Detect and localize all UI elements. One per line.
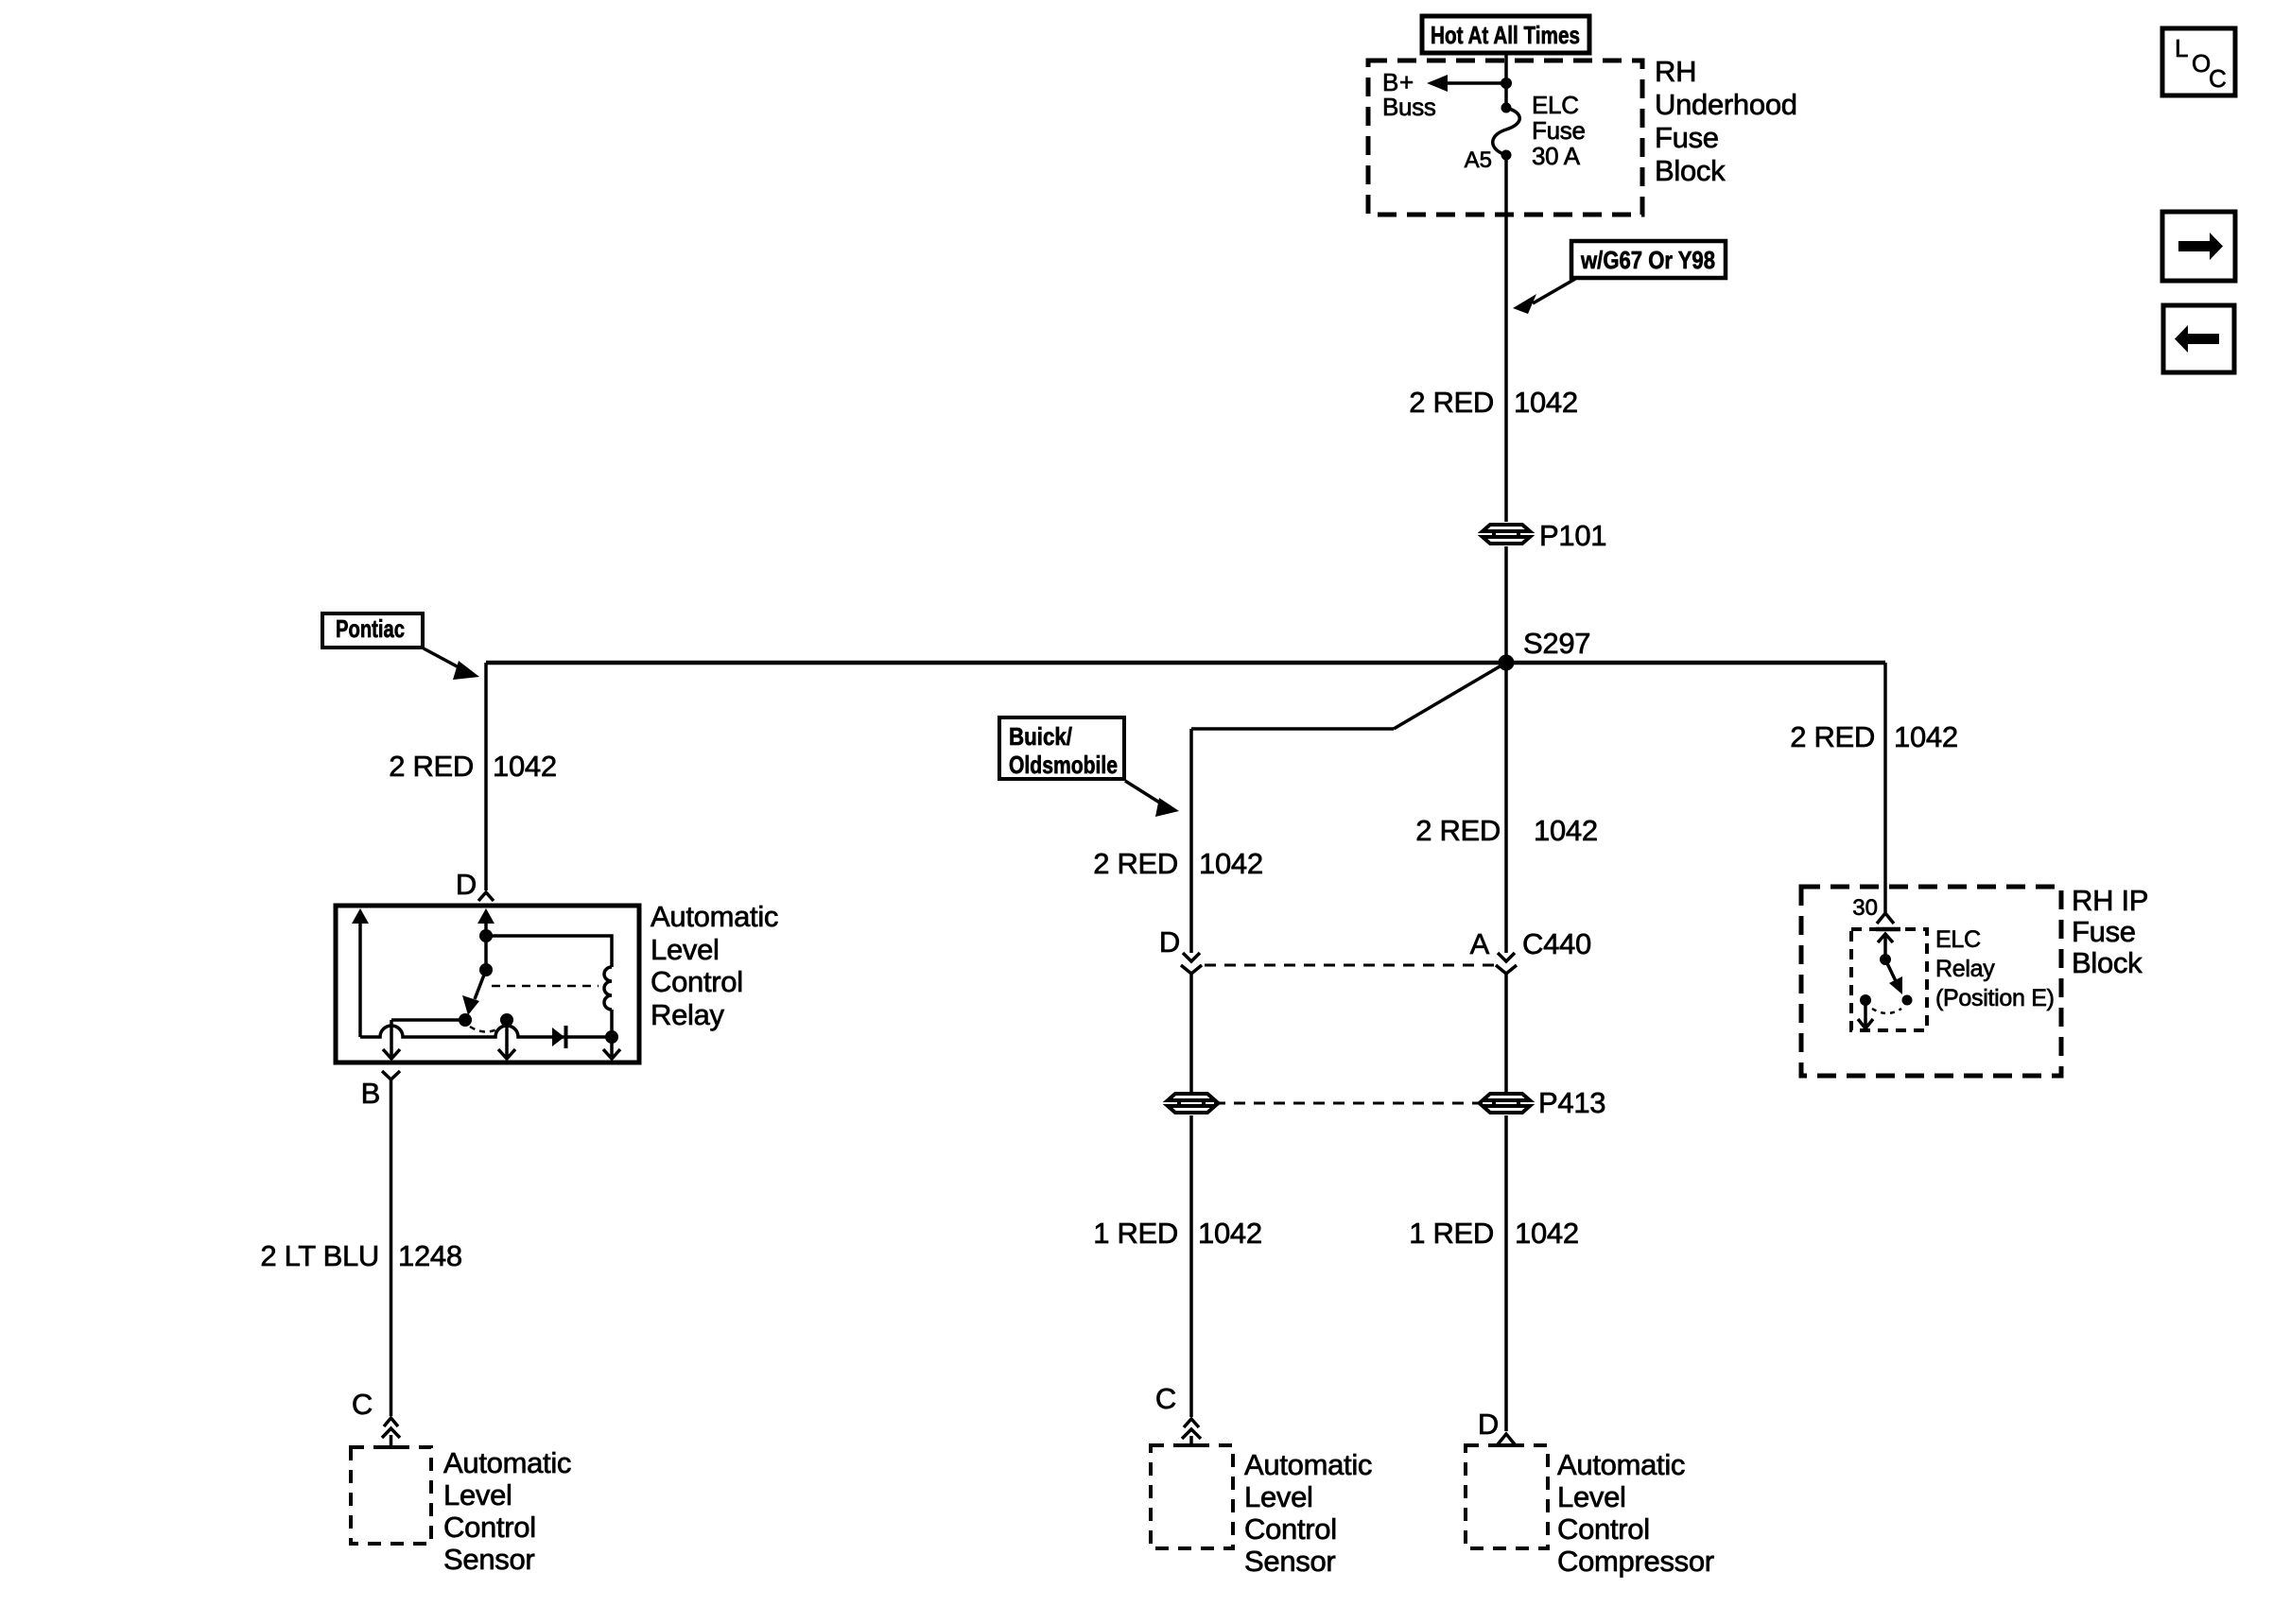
svg-text:D: D <box>1478 1408 1499 1441</box>
wire: main vertical S297 down to C440 pin A <box>1504 663 1508 953</box>
dashed box: Automatic Level Control Sensor (left) <box>351 1447 431 1544</box>
wire: stub into sensor box <box>390 1435 393 1447</box>
svg-text:L: L <box>2175 34 2188 62</box>
wire: relay pin B leg <box>390 1020 393 1058</box>
svg-text:30: 30 <box>1852 895 1878 921</box>
svg-text:1 RED: 1 RED <box>1093 1217 1178 1250</box>
svg-text:Relay: Relay <box>651 998 725 1031</box>
node: ELC relay common contact <box>1880 954 1891 965</box>
svg-text:C440: C440 <box>1522 927 1591 960</box>
svg-text:P413: P413 <box>1538 1086 1605 1119</box>
node: relay switch pivot <box>479 963 493 976</box>
svg-text:Level: Level <box>1557 1480 1626 1513</box>
dashed link: relay armature <box>492 985 599 988</box>
wire: P413 to ALC compressor D <box>1504 1115 1508 1431</box>
svg-text:Relay: Relay <box>1935 956 1995 982</box>
wire: C440 D to P413 <box>1189 974 1193 1092</box>
box: Hot At All Times label <box>1422 16 1589 53</box>
wire: stub into mid sensor box <box>1189 1436 1193 1445</box>
connector: relay pin D chevron <box>478 892 494 901</box>
wire: junction to fuse <box>1504 83 1508 108</box>
svg-text:Underhood: Underhood <box>1655 88 1797 121</box>
wire: B+ Buss feed <box>1444 81 1506 85</box>
node: coil to bus junction <box>605 1030 618 1044</box>
connector C440 pin D male chevron <box>1183 953 1200 961</box>
node: relay second contact <box>500 1013 513 1027</box>
connector: pin 30 chevron <box>1877 913 1894 924</box>
wire: main horizontal bus <box>486 661 1885 665</box>
connector: sensor C chevron lower <box>382 1428 400 1438</box>
svg-text:Level: Level <box>443 1478 512 1512</box>
svg-text:Fuse: Fuse <box>1532 116 1586 145</box>
connector: sensor C chevron upper <box>384 1418 398 1426</box>
connector P413 left grommet <box>1168 1094 1215 1113</box>
svg-text:Hot At All Times: Hot At All Times <box>1431 21 1580 49</box>
connector: mid sensor C chevron lower <box>1182 1429 1201 1439</box>
svg-text:Level: Level <box>1244 1480 1313 1513</box>
svg-text:Level: Level <box>651 933 720 966</box>
connector: pin B socket Y <box>382 1071 400 1080</box>
box: Buick/Oldsmobile label <box>999 717 1124 779</box>
svg-text:Automatic: Automatic <box>1557 1448 1685 1481</box>
wire: Buick branch horizontal <box>1191 727 1394 731</box>
svg-text:Control: Control <box>1244 1512 1337 1546</box>
svg-text:Control: Control <box>1557 1512 1650 1546</box>
icon: back arrow <box>2175 325 2219 353</box>
terminal: relay pin D arrow up <box>477 908 495 924</box>
box: back arrow <box>2163 305 2234 372</box>
svg-text:C: C <box>2209 64 2227 93</box>
wire: pin B to ALC sensor <box>390 1080 393 1416</box>
svg-text:1042: 1042 <box>1894 720 1958 753</box>
wire: relay pin 2 leg <box>505 1020 509 1058</box>
connector C440 pin A female chevron <box>1496 965 1517 974</box>
node: ELC relay contact E <box>1902 995 1913 1006</box>
svg-text:(Position E): (Position E) <box>1935 985 2055 1011</box>
svg-text:RH: RH <box>1655 55 1696 88</box>
connector P101 <box>1483 525 1530 544</box>
svg-text:1 RED: 1 RED <box>1409 1217 1494 1250</box>
svg-text:1042: 1042 <box>1515 1217 1579 1250</box>
svg-text:Automatic: Automatic <box>651 900 778 933</box>
wire: contact to pin B <box>391 1018 465 1022</box>
box: Pontiac label <box>322 613 423 648</box>
wire: Buick branch vertical <box>1189 729 1193 953</box>
svg-text:Fuse: Fuse <box>1655 121 1719 154</box>
wire: RH IP branch vertical <box>1883 663 1887 912</box>
svg-text:Automatic: Automatic <box>1244 1448 1372 1481</box>
dashed box: Automatic Level Control Sensor (middle) <box>1151 1445 1233 1548</box>
svg-text:Oldsmobile: Oldsmobile <box>1009 751 1118 779</box>
dashed arc: ELC relay contact travel <box>1872 1009 1901 1013</box>
svg-text:1248: 1248 <box>398 1239 462 1272</box>
svg-text:1042: 1042 <box>1514 386 1578 419</box>
svg-text:Automatic: Automatic <box>443 1446 571 1479</box>
switch arm: relay movable contact <box>475 970 486 999</box>
svg-text:Block: Block <box>2072 946 2143 979</box>
connector: compressor D chevron <box>1498 1434 1515 1444</box>
dashed box: ELC Relay <box>1851 929 1927 1030</box>
node: relay contact <box>459 1013 472 1027</box>
dashed link: connector C440 <box>1205 964 1494 967</box>
svg-text:Control: Control <box>651 965 743 998</box>
svg-text:Sensor: Sensor <box>443 1543 534 1576</box>
wire: pin 30 to switch <box>1883 936 1887 959</box>
arrowhead: pin 2 exit <box>498 1049 515 1059</box>
node: ELC relay contact left <box>1860 994 1871 1006</box>
svg-text:2 RED: 2 RED <box>1415 814 1501 847</box>
tick: sensor pin entry <box>381 1445 401 1449</box>
svg-text:w/G67 Or Y98: w/G67 Or Y98 <box>1580 246 1715 274</box>
dashed box: RH Underhood Fuse Block <box>1368 60 1642 215</box>
wire: relay NC leg <box>358 922 362 1037</box>
svg-text:2 RED: 2 RED <box>1093 847 1178 880</box>
arrowhead: pin B exit <box>383 1049 400 1059</box>
box: Automatic Level Control Relay <box>336 906 639 1063</box>
icon: forward arrow <box>2178 233 2223 260</box>
wire: relay bottom bus with pin bumps <box>360 1026 612 1037</box>
svg-text:C: C <box>1155 1382 1176 1415</box>
wire: relay common to coil top <box>486 936 612 967</box>
svg-text:ELC: ELC <box>1935 926 1981 953</box>
arrowhead: B+ Buss (left) <box>1427 75 1448 92</box>
svg-text:P101: P101 <box>1539 519 1606 552</box>
fuse: ELC Fuse 30 A <box>1493 108 1520 155</box>
svg-text:2 RED: 2 RED <box>1790 720 1875 753</box>
svg-text:D: D <box>456 868 477 901</box>
wire: P413 to ALC sensor C <box>1189 1115 1193 1417</box>
box: w/G67 Or Y98 label <box>1571 241 1726 278</box>
dashed link: P413 pass-through <box>1214 1102 1483 1105</box>
connector P413 right grommet <box>1483 1094 1530 1113</box>
connector C440 pin A male chevron <box>1498 953 1515 961</box>
wire: pivot from common <box>484 936 488 970</box>
wire: S297 diagonal to Buick branch <box>1394 663 1506 729</box>
svg-text:A: A <box>1470 927 1490 960</box>
wire from Hot box to fuse block <box>1504 53 1508 83</box>
arrow leader: Pontiac <box>424 648 460 668</box>
svg-text:Control: Control <box>443 1511 536 1544</box>
svg-text:1042: 1042 <box>1534 814 1598 847</box>
svg-text:Fuse: Fuse <box>2072 915 2136 948</box>
svg-text:1042: 1042 <box>1199 847 1263 880</box>
svg-text:RH IP: RH IP <box>2072 884 2148 917</box>
connector: mid sensor C chevron upper <box>1184 1419 1199 1427</box>
dashed arc: relay contact travel <box>470 1027 502 1032</box>
wire: left contact lead with arrowhead <box>1864 1000 1867 1027</box>
node: splice S297 <box>1499 655 1515 671</box>
wire: P101 to S297 <box>1504 546 1508 663</box>
terminal: ELC relay pin 30 socket tick <box>1876 927 1900 932</box>
dashed box: Automatic Level Control Compressor <box>1466 1445 1548 1548</box>
wire: Pontiac branch vertical <box>484 663 488 890</box>
dashed box: RH IP Fuse Block <box>1801 887 2061 1076</box>
connector C440 pin D female chevron <box>1181 965 1202 974</box>
svg-text:S297: S297 <box>1523 627 1590 660</box>
terminal: relay NC arrow up <box>352 908 369 924</box>
tick: mid sensor pin entry <box>1181 1443 1202 1447</box>
diode: relay clamp diode <box>552 1028 564 1046</box>
svg-text:D: D <box>1159 925 1180 959</box>
arrowhead: pin 3 exit <box>603 1049 620 1059</box>
wire: coil bottom lead <box>610 1010 614 1037</box>
wire: C440 A to P413 <box>1504 974 1508 1092</box>
svg-text:ELC: ELC <box>1532 91 1579 119</box>
svg-text:Buick/: Buick/ <box>1009 722 1072 751</box>
svg-text:Sensor: Sensor <box>1244 1545 1335 1578</box>
box: LOC legend <box>2162 28 2235 95</box>
svg-text:B: B <box>361 1077 380 1110</box>
svg-text:1042: 1042 <box>493 750 557 783</box>
wire: relay pin 3 leg <box>610 1037 614 1058</box>
svg-text:2 LT BLU: 2 LT BLU <box>260 1239 379 1272</box>
switch arm: ELC relay (position E) <box>1885 959 1897 983</box>
box: forward arrow <box>2162 212 2235 281</box>
svg-text:2 RED: 2 RED <box>1409 386 1494 419</box>
arrow leader: Buick/Oldsmobile <box>1125 781 1161 803</box>
svg-text:A5: A5 <box>1465 147 1492 173</box>
svg-text:1042: 1042 <box>1198 1217 1262 1250</box>
svg-text:Block: Block <box>1655 154 1726 187</box>
coil: relay winding <box>604 967 612 1010</box>
svg-text:Buss: Buss <box>1382 93 1436 121</box>
svg-text:2 RED: 2 RED <box>389 750 474 783</box>
node: B+ Buss junction dot <box>1501 78 1512 89</box>
node: relay switch common <box>479 929 493 942</box>
wire: fuse A5 output down to P101 <box>1504 155 1508 522</box>
arrow leader: w/G67 Or Y98 <box>1533 279 1575 303</box>
svg-text:30 A: 30 A <box>1532 142 1581 170</box>
svg-text:Compressor: Compressor <box>1557 1545 1714 1578</box>
svg-text:Pontiac: Pontiac <box>336 614 405 643</box>
svg-text:C: C <box>352 1388 373 1421</box>
tick: compressor pin entry <box>1496 1443 1517 1447</box>
